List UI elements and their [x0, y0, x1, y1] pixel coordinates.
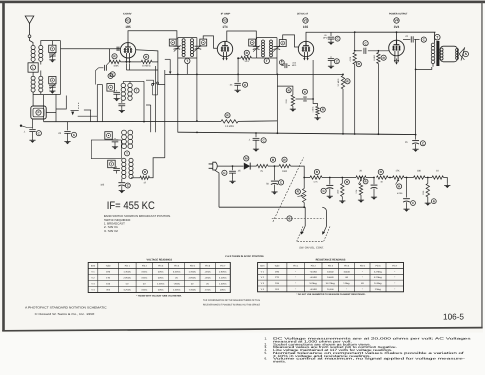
resistor R3 10 MEG [141, 60, 152, 63]
svg-text:Pin 5: Pin 5 [190, 265, 196, 268]
wire V4 plate to rail [396, 32, 398, 40]
wire V1 grid box left vertical [109, 49, 111, 62]
wire AVC bus horizontal [44, 120, 221, 122]
svg-text:MFD: MFD [292, 64, 297, 67]
svg-text:* DO NOT USE OHMMETER TO MEAS: * DO NOT USE OHMMETER TO MEASURE FILAMEN… [297, 293, 366, 296]
svg-text:4.7K: 4.7K [313, 180, 318, 183]
oscillator trimmer designator circle [108, 74, 113, 79]
svg-text:Volume control at maximum, no: Volume control at maximum, no signal app… [273, 357, 465, 361]
selenium rectifier M1 [244, 163, 250, 170]
padder capacitor below osc coil [121, 100, 123, 103]
wire 470K bottom to bus [354, 64, 356, 133]
band coil section 2 trimmer box [105, 132, 113, 140]
svg-text:1R5: 1R5 [125, 25, 130, 29]
tube V4 3V4 power output envelope [389, 40, 405, 56]
ground below C7b [328, 65, 334, 69]
electrolytic C17 25 mfd at bus end [415, 135, 417, 140]
svg-text:0V.: 0V. [126, 283, 129, 286]
svg-text:+0.5KΩ: +0.5KΩ [310, 276, 318, 279]
ground below C14 [327, 195, 333, 199]
wire osc grid arrow tap [146, 80, 153, 83]
svg-text:Tube: Tube [275, 265, 281, 268]
svg-text:Pin 3: Pin 3 [158, 265, 164, 268]
svg-text:Pin 4: Pin 4 [174, 265, 180, 268]
svg-text:IF AMP: IF AMP [221, 13, 231, 16]
svg-text:M: M [245, 157, 248, 161]
svg-text:10 Meg.: 10 Meg. [374, 282, 382, 285]
wire segments band switch verticals [96, 85, 98, 122]
svg-text:SW. ON VOL. CONT.: SW. ON VOL. CONT. [299, 247, 324, 250]
resistor R11 75 ohm [257, 164, 269, 167]
wire V2 plate to IF2 [227, 31, 256, 42]
AVC network: resistor R5 1 MEG [277, 74, 279, 76]
svg-text:1000Ω: 1000Ω [327, 276, 334, 279]
svg-text:0.9VDC: 0.9VDC [219, 271, 227, 274]
shield box around band coil [91, 140, 121, 159]
wire chain end to ground [444, 178, 448, 184]
band coil section 2 windings [122, 130, 127, 135]
svg-text:T: T [126, 152, 128, 156]
svg-text:CONV: CONV [123, 13, 132, 16]
antenna [25, 16, 34, 24]
wire riser up from band coil [164, 70, 166, 158]
wire between bias resistors [121, 61, 142, 63]
svg-text:Tube: Tube [106, 265, 112, 268]
dashed link horizontal [272, 218, 324, 220]
svg-text:1000: 1000 [282, 170, 288, 173]
resistor R14 1000 ohm vertical [341, 177, 343, 179]
svg-text:+0.5KΩ: +0.5KΩ [310, 270, 318, 273]
svg-text:.1VDC: .1VDC [204, 289, 211, 292]
svg-text:4.2 Meg.: 4.2 Meg. [374, 276, 383, 279]
svg-text:1 MEG: 1 MEG [373, 54, 376, 61]
svg-text:2.8VDC: 2.8VDC [189, 277, 197, 280]
svg-text:C: C [412, 201, 414, 205]
svg-text:3.3 MEG: 3.3 MEG [337, 78, 340, 86]
svg-text:Pin 1: Pin 1 [293, 265, 299, 268]
resistor R20 2200 vertical [427, 177, 429, 179]
wire left L to trimmer ground [56, 96, 66, 110]
resistor R1 47 ohm [131, 177, 140, 179]
ground at chain end [444, 184, 450, 188]
filament arrow below V4 center [396, 59, 398, 65]
capacitor C7b below [330, 57, 332, 58]
tube designator V1 circle [125, 18, 130, 23]
wire IF1 bottom lead down [186, 64, 188, 75]
svg-text:0VDC: 0VDC [142, 271, 148, 274]
resistor R2 100K [110, 60, 121, 63]
svg-text:.0VDC: .0VDC [204, 271, 211, 274]
svg-text:1000: 1000 [337, 190, 340, 194]
wire rectifier output to B+ chain [291, 166, 305, 177]
wire grid lead V1 [61, 48, 121, 50]
switch contact wire right [84, 109, 91, 111]
wire screen vertical to bus [155, 66, 157, 132]
ground below C16 [403, 208, 409, 212]
svg-text:Item: Item [91, 265, 95, 268]
wire vertical osc to AVC bus [143, 81, 145, 121]
wire osc coil top bar [123, 80, 144, 82]
svg-text:P: P [37, 111, 39, 115]
svg-text:10 K: 10 K [244, 60, 249, 63]
osc coil designator circle [134, 88, 139, 93]
IF1 frame wires [177, 38, 179, 58]
svg-text:MFD: MFD [323, 37, 328, 40]
wire right of R3 to vertical [152, 61, 158, 63]
svg-text:Pin 7: Pin 7 [392, 265, 398, 268]
oscillator coil T-OSC section 1 trimmer box [107, 84, 115, 92]
svg-text:1000Ω: 1000Ω [344, 270, 351, 273]
ground below C7 [328, 41, 334, 45]
wire vertical filament to AVC line with arrow [169, 59, 171, 72]
svg-text:RECEIVER MAKES IT POSSIBLE TO: RECEIVER MAKES IT POSSIBLE TO BRING YOU … [203, 304, 260, 307]
svg-text:3. SW #2: 3. SW #2 [104, 229, 118, 233]
speaker cone [459, 47, 465, 60]
capacitor C3 .05 [67, 122, 69, 131]
resistor R10 3.3 MEG on AVC bus [225, 113, 230, 118]
IF2 designator circle [264, 58, 269, 63]
ground below tuning cap C1A [49, 58, 55, 62]
electrolytic C13 50 mfd [274, 166, 276, 180]
ground below C17 [413, 148, 419, 152]
ground below osc trimmer cap [114, 97, 120, 101]
svg-text:5.4VDC: 5.4VDC [173, 271, 181, 274]
IF transformer T1 secondary winding [190, 39, 193, 42]
IF transformer T2 primary winding [262, 40, 265, 43]
capacitor C2 .1 left [32, 119, 34, 129]
resistor R18 17K [393, 176, 405, 179]
svg-text:1.4VDC: 1.4VDC [124, 271, 132, 274]
svg-text:4.2VDC: 4.2VDC [124, 289, 132, 292]
svg-text:1.4VDC: 1.4VDC [173, 289, 181, 292]
svg-text:A PHOTOFACT STANDARD NOTATION: A PHOTOFACT STANDARD NOTATION SCHEMATIC [25, 305, 107, 309]
wire ant coil bottom [33, 93, 60, 95]
svg-text:Item: Item [260, 265, 264, 268]
IF2 left trimmer capacitor [253, 45, 260, 47]
ground below R5 [290, 108, 296, 112]
on-off switch arm 2 [322, 207, 326, 226]
svg-text:0VDC: 0VDC [158, 271, 164, 274]
resistor R21 1K [432, 176, 444, 179]
resistor R9 3.3 MEG AVC feed [342, 74, 344, 76]
wire switch terminal tails [152, 86, 154, 95]
capacitor below band coil 2 trimmer [114, 137, 116, 140]
svg-text:0V.: 0V. [206, 283, 209, 286]
capacitor below band coil 3 trimmer [116, 167, 118, 168]
svg-text:Pin 6: Pin 6 [376, 265, 382, 268]
tuning capacitor C1A variable section [49, 53, 56, 55]
svg-text:1.: 1. [265, 337, 268, 341]
svg-text:*: * [362, 288, 363, 291]
svg-text:Pin 2: Pin 2 [311, 265, 317, 268]
IF transformer T2 left trimmer box [249, 39, 256, 46]
svg-text:6.: 6. [265, 357, 268, 361]
wire AVC bus right end [238, 120, 277, 123]
svg-text:0VDC: 0VDC [142, 277, 148, 280]
ground below volume divider [314, 116, 320, 120]
wire V1 right side to screen vertical [136, 50, 165, 85]
wire junction to coupling cap [355, 50, 362, 52]
tube designator V3 circle [303, 18, 308, 23]
svg-text:V2: V2 [223, 19, 227, 23]
svg-text:3V4: 3V4 [394, 25, 400, 29]
wire AVC down to bus [276, 86, 278, 134]
capacitor C6 .005 diode filter [281, 60, 283, 62]
rheostat R15 2K [346, 177, 356, 179]
svg-text:RESISTANCE READINGS: RESISTANCE READINGS [316, 258, 346, 261]
external antenna terminal dot [20, 125, 22, 127]
svg-text:VOLTAGE READINGS: VOLTAGE READINGS [146, 258, 172, 261]
IF1 right trimmer capacitor [195, 45, 202, 47]
svg-text:2200: 2200 [422, 191, 425, 195]
svg-text:0V.: 0V. [143, 283, 146, 286]
svg-text:Pin 6: Pin 6 [205, 265, 211, 268]
wire antenna to coil [30, 38, 34, 45]
page border frame top bar [0, 0, 485, 1]
page border frame left bar [2, 2, 5, 331]
ground below C12 [229, 180, 235, 184]
resistor R13 4.7K [310, 176, 322, 179]
svg-text:.0VDC: .0VDC [204, 277, 211, 280]
wire right branch vertical [60, 41, 62, 95]
electrolytic C14 at junction 1 [329, 178, 331, 185]
wire V3 diode pin down [312, 60, 314, 99]
variable cap C1B [49, 84, 56, 86]
IF transformer T2 secondary winding [270, 40, 273, 43]
svg-text:1S5: 1S5 [303, 25, 308, 29]
capacitor C5 -.05 on AVC line [234, 82, 240, 84]
wire ant coil bottom to connector [32, 92, 34, 106]
switch lower wire [78, 115, 98, 117]
ground below C15 [371, 196, 377, 200]
svg-text:0V.: 0V. [191, 283, 194, 286]
svg-text:5.: 5. [265, 351, 268, 355]
output transformer T3 primary [431, 43, 435, 47]
antenna coil L1 lower section [31, 76, 35, 80]
antenna coil L1 upper section [31, 45, 35, 49]
wire vertical IF1 return to bus [177, 58, 179, 132]
wire IF2 secondary to V3 [283, 35, 299, 47]
speaker frame [440, 46, 457, 62]
resistor R4 10K screen [238, 57, 241, 59]
capacitor below osc trimmer [116, 90, 118, 91]
wire plug to rectifier [217, 165, 243, 167]
tube V1 1R5 converter envelope [120, 43, 135, 58]
svg-text:1000Ω: 1000Ω [327, 270, 334, 273]
wire coil top to tuning section [41, 41, 61, 46]
svg-text:10 MEG: 10 MEG [142, 65, 151, 68]
output transformer T3 secondary [440, 48, 443, 51]
svg-text:10 Meg.: 10 Meg. [309, 282, 317, 285]
wire to R18 [388, 177, 393, 179]
resistor R19 18K [404, 177, 414, 179]
svg-text:*: * [362, 276, 363, 279]
on-off switch arm 1 [304, 207, 306, 226]
tuning gang trimmer C1A box [49, 45, 56, 52]
ground below osc padder [119, 109, 125, 113]
wire IF1 right lead down to bus [196, 58, 198, 121]
wire T3 primary bottom lead [432, 66, 433, 68]
AF coupling capacitor C8 [296, 98, 304, 100]
ground below R14 [341, 197, 343, 200]
wire vertical band switch to bus [150, 105, 152, 132]
output transformer T3 core [436, 41, 439, 66]
svg-text:0VDC: 0VDC [220, 289, 226, 292]
svg-text:0V.: 0V. [175, 277, 178, 280]
coupling capacitor C9 .002 [363, 48, 365, 54]
tube designator V4 circle [394, 18, 399, 23]
svg-text:V4: V4 [395, 19, 399, 23]
speaker voice coil [456, 49, 459, 52]
svg-text:0Ω: 0Ω [361, 282, 364, 285]
IF2 right trimmer box [279, 40, 286, 47]
svg-text:T: T [136, 89, 138, 93]
svg-text:10.2 Meg.: 10.2 Meg. [326, 282, 336, 285]
IF transformer T1 left trimmer box [169, 39, 176, 46]
tube V2 1T4 IF amplifier envelope [217, 41, 232, 56]
svg-text:POWER OUTPUT: POWER OUTPUT [389, 13, 408, 16]
svg-text:Pin 1: Pin 1 [125, 265, 131, 268]
wire B+ chain start [303, 177, 305, 179]
resistor R12 1000 ohm [279, 164, 291, 167]
resistor R17 30 ohm [377, 176, 389, 179]
svg-text:1 Meg.: 1 Meg. [375, 288, 382, 291]
IF1 right trimmer box [200, 39, 207, 46]
svg-text:106-5: 106-5 [443, 312, 464, 322]
svg-text:V3: V3 [304, 19, 308, 23]
svg-text:1.4VDC: 1.4VDC [219, 283, 227, 286]
svg-text:2.8VDC: 2.8VDC [124, 277, 132, 280]
wire chain junction 1 [322, 177, 341, 179]
svg-text:© Howard W. Sams & Co., Inc. 1: © Howard W. Sams & Co., Inc. 1950 [35, 312, 95, 316]
svg-text:2200: 2200 [285, 99, 288, 103]
svg-text:V1: V1 [126, 19, 130, 23]
wire connector to AVC bus [46, 112, 56, 114]
svg-text:1.4VDC: 1.4VDC [157, 283, 165, 286]
svg-text:1 Meg.: 1 Meg. [343, 282, 350, 285]
svg-text:*: * [362, 270, 363, 273]
svg-text:Pin 4: Pin 4 [344, 265, 350, 268]
antenna coil terminal box [28, 63, 38, 72]
svg-text:100K: 100K [113, 65, 119, 68]
wire T3 primary bottom to B+ [416, 67, 432, 69]
ground below C5 [235, 89, 241, 93]
resistor R16 2.2K vertical [360, 177, 362, 179]
svg-text:* TAKEN WITH VACUUM TUBE VOLT: * TAKEN WITH VACUUM TUBE VOLTMETER. [136, 294, 182, 297]
power plug [209, 164, 213, 168]
tube designator V2 circle [222, 18, 227, 23]
wire IF1 secondary to V2 grid [203, 36, 217, 48]
speaker designator circle [463, 51, 468, 56]
wire B- return long horizontal [219, 206, 305, 208]
svg-text:V & R TAKEN IN AC/DC POSITION.: V & R TAKEN IN AC/DC POSITION. [225, 255, 264, 258]
grid resistor R8 1 MEG [377, 51, 379, 53]
svg-text:DET-AVC-AF: DET-AVC-AF [297, 13, 308, 16]
svg-text:IF= 455 KC: IF= 455 KC [107, 200, 155, 212]
svg-text:0VDC: 0VDC [142, 289, 148, 292]
ground below C1B [49, 89, 55, 93]
tube V3 1S5 detector envelope [298, 41, 313, 56]
grid capacitor C4 [107, 62, 110, 65]
svg-text:17K: 17K [395, 170, 400, 173]
wire V2 cathode to AVC line [237, 57, 239, 82]
capacitor C10 .01 plate bypass [403, 38, 410, 40]
loop antenna connector box [31, 106, 46, 119]
grid coupling capacitor at V1 grid [116, 47, 118, 51]
wire IF2 right lead down to AVC line [276, 58, 278, 74]
ground below C11 [253, 148, 259, 152]
ground below 325 cap [119, 189, 125, 193]
switch terminal points [151, 83, 153, 85]
svg-text:1 MEG: 1 MEG [312, 106, 315, 112]
wire screen feed vertical [415, 39, 417, 134]
electrolytic C16 [406, 178, 408, 198]
IF transformer T1 primary winding [182, 39, 185, 42]
antenna section lower trimmer C1B box [49, 77, 56, 84]
capacitor C7 .05 screen bypass [330, 32, 332, 36]
output transformer T3 designator [435, 34, 441, 40]
svg-text:Pin 2: Pin 2 [142, 265, 148, 268]
svg-text:7.4VDC: 7.4VDC [189, 289, 197, 292]
wire AVC line horizontal [165, 73, 343, 75]
svg-text:3.3 MEG: 3.3 MEG [225, 125, 234, 128]
band switch contact arm [71, 110, 79, 112]
wire rectifier to R11 [250, 165, 256, 167]
junction filter input [274, 165, 276, 167]
svg-text:1.4VDC: 1.4VDC [189, 271, 197, 274]
svg-text:1K: 1K [436, 170, 439, 173]
svg-text:THE COORDINATION OF THE MANUFA: THE COORDINATION OF THE MANUFACTURER OF … [203, 299, 260, 302]
svg-text:C: C [281, 60, 283, 64]
ground below C13 [271, 190, 277, 194]
electrolytic C15 [366, 177, 374, 179]
IF2 right trimmer capacitor [273, 45, 280, 47]
switch dashed outline [297, 227, 331, 242]
volume control R22 pot [303, 178, 305, 189]
band coil section 3 windings [122, 158, 126, 162]
switch linkage dashes [78, 103, 80, 110]
svg-text:L: L [32, 66, 34, 70]
ground below C2 [29, 139, 35, 143]
wire B- bus horizontal [178, 132, 416, 134]
svg-text:1T4: 1T4 [222, 25, 227, 29]
svg-text:ments.: ments. [273, 360, 286, 364]
svg-text:-.6VDC: -.6VDC [173, 283, 180, 286]
wire top to trimmer C1A [51, 41, 53, 46]
svg-text:470K: 470K [349, 56, 352, 61]
svg-text:10,000: 10,000 [327, 288, 334, 291]
IF2 frame wires [256, 38, 258, 58]
svg-text:0Ω: 0Ω [345, 276, 348, 279]
svg-text:S: S [288, 217, 290, 221]
band coil section 3 trimmer box [108, 160, 116, 168]
wire 47 ohm to vertical riser [150, 158, 165, 178]
band coil 2 designator circle [125, 151, 130, 156]
wire plug lower conductor down [215, 170, 220, 207]
svg-text:0VDC: 0VDC [158, 289, 164, 292]
svg-text:Pin 5: Pin 5 [360, 265, 366, 268]
page border frame right line [481, 2, 482, 328]
resistor R7 470K plate load [354, 32, 356, 51]
line bypass capacitor C12 .05 [232, 165, 234, 167]
ground below band coil 2 cap [112, 145, 118, 149]
capacitor C11 .1 on bus [255, 133, 257, 137]
svg-text:+0.5KΩ: +0.5KΩ [310, 288, 318, 291]
svg-text:Pin 3: Pin 3 [328, 265, 334, 268]
svg-text:T: T [266, 59, 268, 63]
volume divider resistor R6 1 MEG [313, 99, 317, 106]
svg-text:4.2 Meg.: 4.2 Meg. [374, 270, 383, 273]
